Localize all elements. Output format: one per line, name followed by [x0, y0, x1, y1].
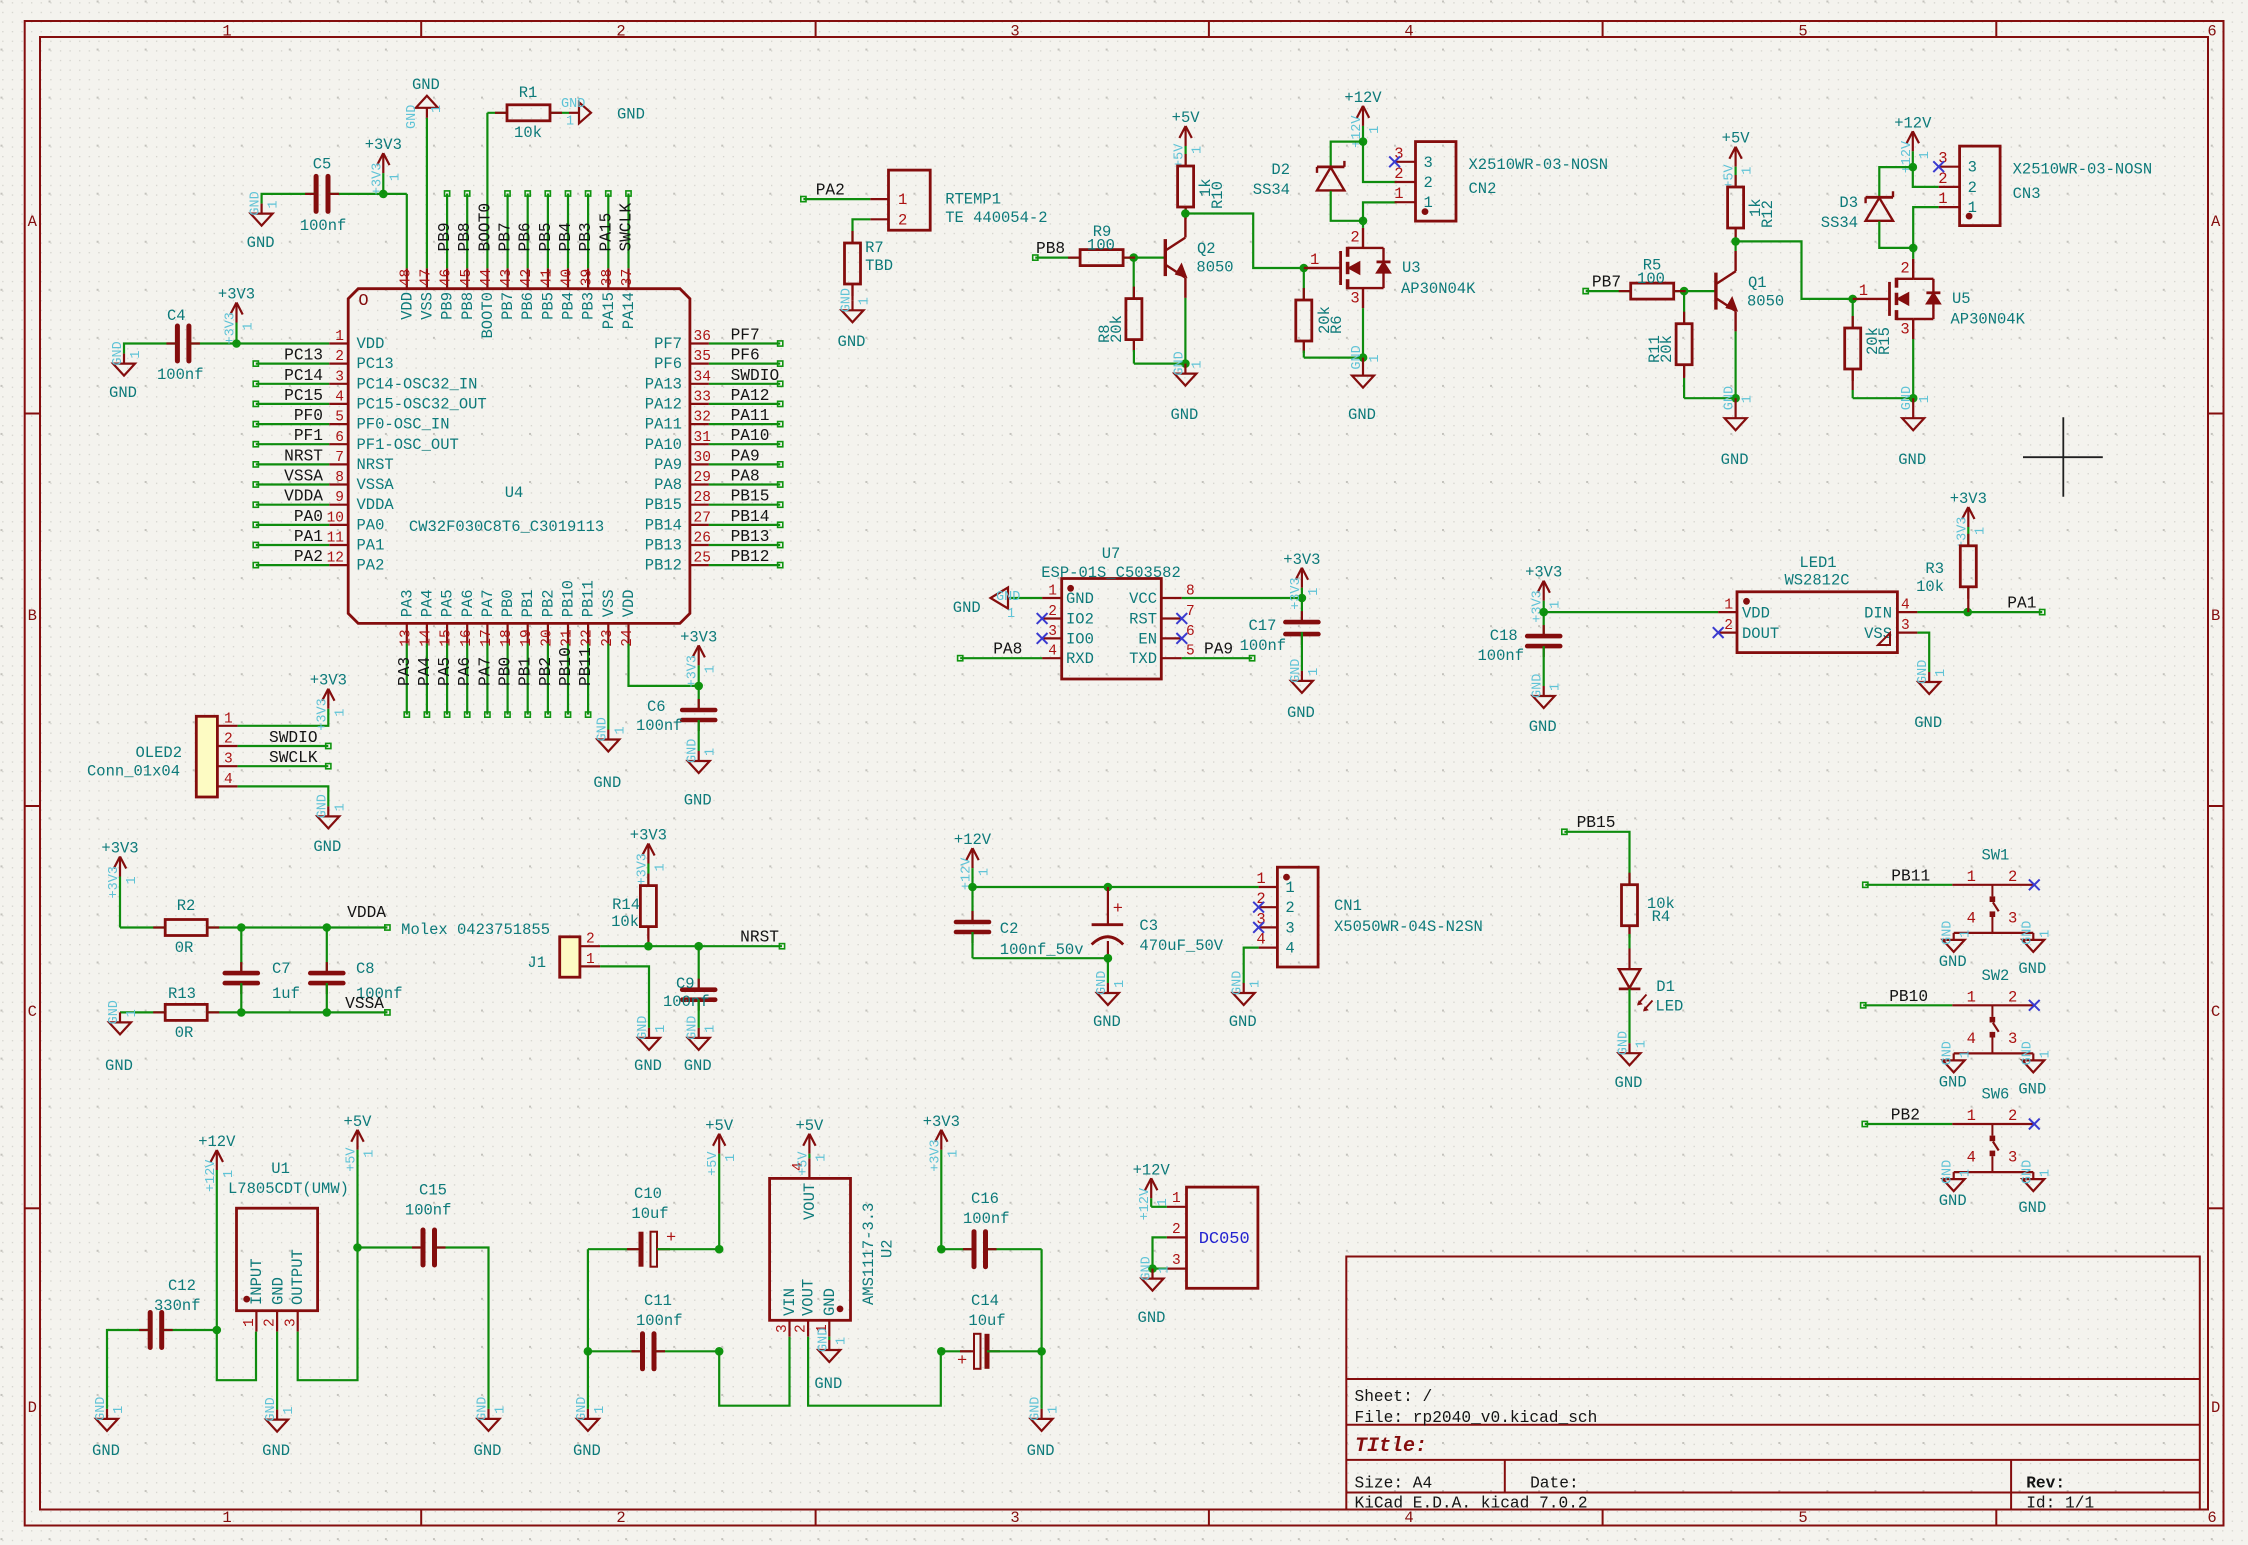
- wire DC050 pin2 down: [1153, 1237, 1167, 1268]
- svg-text:GND: GND: [1229, 1013, 1257, 1031]
- ground at C5: [247, 191, 282, 252]
- wire VSSA to U4 pin 8: [256, 483, 329, 485]
- wire R9 to Q2 base: [1123, 257, 1165, 259]
- wire +3V3 to LED1 VDD: [1544, 611, 1719, 613]
- svg-text:AMS1117-3.3: AMS1117-3.3: [860, 1203, 878, 1305]
- svg-text:C14: C14: [971, 1292, 999, 1310]
- svg-text:A: A: [2211, 213, 2221, 231]
- wire R6 to source ground: [1304, 357, 1363, 359]
- wire PA2 to RTEMP1: [803, 198, 870, 200]
- svg-text:11: 11: [327, 531, 344, 547]
- svg-text:PA7: PA7: [479, 589, 497, 617]
- svg-text:3: 3: [335, 369, 344, 385]
- svg-text:4: 4: [1256, 931, 1265, 949]
- IC U2 AMS1117-3.3: [770, 1158, 897, 1337]
- ground below C6: [684, 739, 719, 810]
- wire U2 VOUT to +3V3 rail: [808, 1337, 941, 1406]
- svg-text:C10: C10: [634, 1185, 662, 1203]
- svg-text:C9: C9: [676, 975, 695, 993]
- no-connect X LED1 DOUT: [1713, 627, 1724, 638]
- svg-text:1: 1: [1368, 126, 1383, 134]
- svg-text:1: 1: [653, 863, 668, 871]
- svg-text:PF6: PF6: [731, 347, 760, 365]
- wire U4 pin 16 label PA6: [466, 644, 468, 715]
- svg-text:Sheet: /: Sheet: /: [1355, 1388, 1433, 1406]
- svg-text:GND: GND: [1941, 1160, 1956, 1184]
- svg-text:GND: GND: [474, 1442, 502, 1460]
- svg-text:1: 1: [129, 350, 144, 358]
- svg-text:PB2: PB2: [537, 657, 555, 686]
- svg-text:3: 3: [224, 752, 233, 768]
- wire OLED2 pin2 SWDIO: [238, 745, 329, 747]
- junction C8/VDDA: [323, 923, 332, 932]
- svg-text:Rev:: Rev:: [2026, 1475, 2065, 1493]
- svg-text:GND: GND: [561, 97, 585, 112]
- junction C10/+5V: [715, 1245, 724, 1254]
- wire U4 pin23 VSS to ground: [607, 644, 609, 730]
- svg-text:3: 3: [1350, 290, 1359, 308]
- connector OLED2 Conn_01x04: [87, 711, 238, 797]
- svg-text:PB10: PB10: [1889, 988, 1928, 1006]
- power +3V3 at OLED2: [310, 672, 349, 731]
- power +3V3 top: [365, 136, 404, 195]
- wire U4 pin 25 to label PB12: [709, 564, 780, 566]
- svg-text:1: 1: [1156, 1198, 1171, 1206]
- svg-text:C4: C4: [167, 307, 186, 325]
- no-connect X CN2 pin3: [1389, 156, 1400, 167]
- svg-text:1: 1: [1959, 1169, 1974, 1177]
- svg-text:1: 1: [333, 803, 348, 811]
- connector RTEMP1 TE 440054-2: [870, 170, 1047, 230]
- junction +12V CN3: [1909, 163, 1918, 172]
- svg-text:1: 1: [222, 1509, 231, 1527]
- svg-text:PA5: PA5: [439, 589, 457, 617]
- power +5V at C10: [705, 1117, 739, 1249]
- ground at C11: [573, 1397, 608, 1460]
- wire OLED2 pin1 to +3V3: [238, 709, 329, 726]
- svg-text:10k: 10k: [611, 913, 639, 931]
- svg-text:1: 1: [282, 1406, 297, 1414]
- svg-text:PA15: PA15: [597, 213, 615, 252]
- svg-text:1: 1: [613, 726, 628, 734]
- no-connect X U7 RST: [1176, 613, 1187, 624]
- svg-text:1: 1: [1048, 584, 1057, 600]
- junction C9/NRST: [694, 942, 703, 951]
- wire U4 pin 27 to label PB14: [709, 524, 780, 526]
- svg-text:GND: GND: [816, 1328, 831, 1352]
- svg-text:2: 2: [1172, 1222, 1181, 1238]
- capacitor C5 100nf: [300, 156, 347, 236]
- ground at C14/C16: [1027, 1397, 1062, 1460]
- svg-text:GND: GND: [1170, 406, 1198, 424]
- svg-text:5: 5: [335, 410, 344, 426]
- wire PA8 to U7 RXD: [960, 657, 1042, 659]
- wire U4 pin 28 to label PB15: [709, 504, 780, 506]
- svg-text:SWCLK: SWCLK: [269, 749, 318, 767]
- resistor R9 100: [1080, 223, 1123, 266]
- wire U4 pin 35 to label PF6: [709, 363, 780, 365]
- svg-text:1: 1: [333, 709, 348, 717]
- svg-text:LED: LED: [1655, 998, 1683, 1016]
- svg-text:1: 1: [1307, 588, 1322, 596]
- svg-text:+5V: +5V: [795, 1117, 824, 1135]
- wire U4 pin 46 label PB9: [446, 194, 448, 269]
- resistor R6 20k: [1296, 268, 1346, 358]
- svg-text:D2: D2: [1271, 161, 1290, 179]
- svg-text:CN2: CN2: [1469, 180, 1497, 198]
- power +12V at CN1: [954, 831, 993, 890]
- svg-text:GND: GND: [105, 1057, 133, 1075]
- svg-text:L7805CDT(UMW): L7805CDT(UMW): [228, 1180, 349, 1198]
- svg-text:GND: GND: [838, 333, 866, 351]
- wire U7 VCC to +3V3: [1182, 597, 1302, 599]
- svg-text:GND: GND: [953, 599, 981, 617]
- resistor R13 0R: [165, 985, 207, 1042]
- wire U4 pin 13 label PA3: [406, 644, 408, 715]
- svg-text:3: 3: [1172, 1253, 1181, 1269]
- wire Q2 emitter down: [1184, 278, 1186, 298]
- wire +12V to CN2 pin2: [1363, 142, 1397, 182]
- junction U5 drain: [1909, 244, 1918, 253]
- svg-text:PA14: PA14: [620, 292, 638, 329]
- svg-text:+3V3: +3V3: [365, 136, 402, 154]
- ground at U3: [1348, 345, 1383, 424]
- svg-text:PA12: PA12: [731, 387, 770, 405]
- svg-text:SWDIO: SWDIO: [731, 367, 780, 385]
- wire LED1 DIN to PA1: [1917, 611, 2042, 613]
- svg-text:GND: GND: [476, 1397, 491, 1421]
- no-connect X U7 EN: [1176, 633, 1187, 644]
- svg-text:3: 3: [1900, 321, 1909, 339]
- wire C12 left to ground: [107, 1330, 150, 1409]
- junction C11 right: [715, 1347, 724, 1356]
- svg-text:Id: 1/1: Id: 1/1: [2026, 1495, 2094, 1513]
- svg-text:GND: GND: [2018, 960, 2046, 978]
- svg-text:PB8: PB8: [459, 292, 477, 320]
- svg-text:PA5: PA5: [436, 657, 454, 686]
- svg-text:PA3: PA3: [396, 657, 414, 686]
- resistor R10 1k: [1178, 154, 1227, 219]
- capacitor C14 10uf polarized: [941, 1292, 1041, 1371]
- wire U2 GND pin to ground: [828, 1337, 830, 1340]
- svg-text:GND: GND: [1939, 1073, 1967, 1091]
- svg-text:2: 2: [1350, 229, 1359, 247]
- junction R2/C7: [237, 923, 246, 932]
- svg-text:3: 3: [1285, 919, 1294, 937]
- svg-text:GND: GND: [313, 838, 341, 856]
- capacitor C6 100nf: [636, 686, 715, 751]
- svg-text:PB9: PB9: [436, 222, 454, 251]
- svg-text:PB13: PB13: [645, 537, 682, 555]
- svg-text:GND: GND: [573, 1442, 601, 1460]
- junction R9/R8: [1129, 253, 1138, 262]
- wire PF1 to U4 pin 6: [256, 443, 329, 445]
- svg-text:40: 40: [560, 269, 576, 286]
- svg-text:GND: GND: [92, 1442, 120, 1460]
- power +3V3 at U7: [1283, 551, 1322, 610]
- wire +5V rail down to U2 VIN: [719, 1337, 789, 1406]
- svg-text:C: C: [2211, 1003, 2220, 1021]
- svg-text:R12: R12: [1759, 200, 1777, 228]
- wire +12V to DC050 pin1: [1151, 1206, 1167, 1208]
- capacitor C8 100nf: [310, 928, 402, 1013]
- capacitor C12 330nf: [150, 1277, 200, 1348]
- svg-text:43: 43: [499, 269, 515, 286]
- svg-text:PF1-OSC_OUT: PF1-OSC_OUT: [357, 436, 459, 454]
- svg-text:C12: C12: [168, 1277, 196, 1295]
- wire OLED2 pin3 SWCLK: [238, 765, 329, 767]
- wire collector to U3 gate: [1185, 214, 1303, 269]
- svg-text:7: 7: [335, 450, 344, 466]
- no-connect X CN1 pin3: [1253, 922, 1264, 933]
- svg-text:3: 3: [1010, 1509, 1019, 1527]
- svg-text:R15: R15: [1876, 327, 1894, 355]
- junction R12/collector: [1731, 237, 1740, 246]
- svg-text:PC14: PC14: [284, 367, 323, 385]
- svg-text:GND: GND: [575, 1397, 590, 1421]
- svg-text:GND: GND: [1140, 1256, 1155, 1280]
- power +5V at R10: [1172, 109, 1206, 168]
- svg-text:2: 2: [586, 932, 595, 948]
- svg-text:U1: U1: [271, 1160, 290, 1178]
- svg-text:GND: GND: [2020, 1160, 2035, 1184]
- svg-text:2: 2: [335, 349, 344, 365]
- junction C8/VSSA: [323, 1008, 332, 1017]
- svg-text:GND: GND: [1617, 1031, 1632, 1055]
- svg-text:1: 1: [898, 191, 907, 209]
- ground at C15: [474, 1397, 509, 1460]
- svg-text:PF7: PF7: [654, 335, 682, 353]
- svg-text:5: 5: [1798, 23, 1807, 41]
- svg-text:2: 2: [2008, 988, 2017, 1006]
- svg-text:C17: C17: [1249, 617, 1277, 635]
- svg-text:2: 2: [616, 1509, 625, 1527]
- svg-text:1: 1: [1967, 988, 1976, 1006]
- svg-text:X2510WR-03-NOSN: X2510WR-03-NOSN: [1469, 156, 1609, 174]
- svg-text:GND: GND: [247, 234, 275, 252]
- svg-text:VIN: VIN: [781, 1288, 799, 1316]
- svg-text:PA2: PA2: [357, 557, 385, 575]
- svg-text:GND: GND: [1615, 1074, 1643, 1092]
- svg-text:46: 46: [439, 269, 455, 286]
- svg-text:GND: GND: [595, 717, 610, 741]
- wire collector to U5 gate: [1736, 241, 1853, 299]
- svg-text:PF0: PF0: [294, 407, 323, 425]
- svg-text:GND: GND: [636, 1016, 651, 1040]
- svg-text:TItle:: TItle:: [1355, 1435, 1427, 1458]
- wire R15 to source ground: [1853, 397, 1914, 399]
- svg-text:1: 1: [335, 329, 344, 345]
- svg-text:28: 28: [694, 490, 711, 506]
- power +12V at CN3: [1894, 114, 1933, 173]
- connector CN2 X2510WR-03-NOSN: [1394, 142, 1608, 222]
- ground at D1: [1615, 1031, 1650, 1092]
- svg-text:A: A: [28, 213, 38, 231]
- resistor R12 1k: [1728, 175, 1777, 241]
- svg-text:GND: GND: [686, 1016, 701, 1040]
- svg-text:+5V: +5V: [344, 1113, 373, 1131]
- svg-text:1: 1: [1368, 354, 1383, 362]
- power +12V at DC050: [1133, 1161, 1172, 1220]
- svg-text:PB15: PB15: [645, 496, 682, 514]
- svg-text:VSS: VSS: [600, 589, 618, 617]
- svg-text:GND: GND: [2018, 1199, 2046, 1217]
- ground at LED1: [1914, 660, 1949, 732]
- svg-text:44: 44: [479, 269, 495, 286]
- svg-text:100nf: 100nf: [663, 993, 710, 1011]
- svg-text:10uf: 10uf: [968, 1312, 1005, 1330]
- svg-text:GND: GND: [249, 191, 264, 215]
- svg-text:4: 4: [1404, 23, 1413, 41]
- svg-text:PB13: PB13: [731, 528, 770, 546]
- svg-text:25: 25: [694, 551, 711, 567]
- svg-text:C6: C6: [647, 698, 666, 716]
- svg-text:1: 1: [978, 868, 993, 876]
- power +3V3 at R14: [630, 827, 669, 886]
- wire U5 drain up: [1912, 259, 1914, 279]
- svg-text:32: 32: [694, 410, 711, 426]
- svg-text:U4: U4: [505, 484, 524, 502]
- svg-text:1: 1: [1934, 669, 1949, 677]
- svg-text:GND: GND: [1529, 718, 1557, 736]
- svg-text:SW1: SW1: [1981, 846, 2009, 864]
- svg-text:ESP-01S_C503582: ESP-01S_C503582: [1041, 564, 1181, 582]
- svg-text:1: 1: [1967, 868, 1976, 886]
- svg-text:100nf: 100nf: [636, 1312, 683, 1330]
- junction U3 gate/R6: [1300, 264, 1309, 273]
- svg-text:2: 2: [1938, 170, 1947, 188]
- svg-text:D: D: [2211, 1399, 2220, 1417]
- wire U1 gnd pin to ground: [276, 1332, 278, 1410]
- ground left SW1: [1939, 921, 1974, 971]
- svg-text:1: 1: [1394, 185, 1403, 203]
- power +3V3 at C4: [218, 286, 257, 345]
- ground at C18: [1529, 674, 1564, 736]
- svg-text:PF0-OSC_IN: PF0-OSC_IN: [357, 416, 450, 434]
- svg-text:3: 3: [2008, 909, 2017, 927]
- power +12V at CN2: [1344, 89, 1383, 148]
- wire U4 pin 43 label PB7: [507, 194, 509, 269]
- svg-text:BOOT0: BOOT0: [479, 292, 497, 339]
- svg-text:GND: GND: [1914, 714, 1942, 732]
- svg-text:C18: C18: [1490, 627, 1518, 645]
- wire PA0 to U4 pin 10: [256, 524, 329, 526]
- IC U7 ESP-01S_C503582: [1041, 545, 1194, 679]
- svg-text:PA11: PA11: [731, 407, 770, 425]
- wire U4 pin 17 label PA7: [486, 644, 488, 715]
- svg-text:1: 1: [1959, 930, 1974, 938]
- wire R13 to VSSA: [207, 1011, 387, 1013]
- wire C15 right to ground: [435, 1248, 489, 1409]
- svg-text:3: 3: [1424, 154, 1433, 172]
- svg-text:PA7: PA7: [476, 657, 494, 686]
- ground at C3: [1093, 958, 1128, 1031]
- junction +12V/C2: [968, 883, 977, 892]
- no-connect X U7 IO0: [1037, 633, 1048, 644]
- svg-text:PA8: PA8: [993, 641, 1022, 659]
- mosfet U5 AP30N04K: [1853, 259, 2026, 338]
- svg-text:WS2812C: WS2812C: [1784, 572, 1849, 590]
- wire U4 pin 42 label PB6: [527, 194, 529, 269]
- svg-text:2: 2: [1424, 174, 1433, 192]
- svg-text:KiCad E.D.A. kicad 7.0.2: KiCad E.D.A. kicad 7.0.2: [1355, 1495, 1588, 1513]
- svg-text:3: 3: [1968, 159, 1977, 177]
- resistor R15 20k: [1845, 299, 1894, 398]
- ground above U4 VSS pin47: [405, 76, 445, 129]
- wire C4 left to ground: [124, 344, 177, 354]
- svg-text:3: 3: [1901, 618, 1910, 634]
- svg-text:VDDA: VDDA: [347, 904, 386, 922]
- svg-text:1: 1: [586, 952, 595, 968]
- resistor R3 10k: [1916, 534, 1976, 612]
- junction +12V CN2: [1359, 137, 1368, 146]
- svg-text:VDD: VDD: [398, 292, 416, 320]
- no-connect X CN3 pin3: [1933, 161, 1944, 172]
- svg-text:1: 1: [1741, 395, 1756, 403]
- svg-text:R2: R2: [177, 897, 196, 915]
- svg-text:GND: GND: [111, 341, 126, 365]
- svg-text:10k: 10k: [514, 124, 542, 142]
- svg-text:330nf: 330nf: [154, 1297, 201, 1315]
- svg-text:GND: GND: [405, 105, 420, 129]
- svg-text:1: 1: [1918, 151, 1933, 159]
- svg-text:PC13: PC13: [357, 355, 394, 373]
- svg-text:2: 2: [224, 732, 233, 748]
- svg-text:3: 3: [1048, 624, 1057, 640]
- svg-text:PA8: PA8: [731, 468, 760, 486]
- svg-text:3: 3: [775, 1324, 791, 1333]
- svg-text:PF6: PF6: [654, 355, 682, 373]
- svg-text:PB10: PB10: [557, 647, 575, 686]
- junction U5 gate/R15: [1848, 295, 1857, 304]
- wire PA2 to U4 pin 12: [256, 564, 329, 566]
- svg-text:2: 2: [898, 212, 907, 230]
- svg-text:2: 2: [1394, 165, 1403, 183]
- connector DC050: [1167, 1187, 1258, 1288]
- no-connect X SW6 pin2: [2029, 1119, 2040, 1130]
- svg-text:INPUT: INPUT: [248, 1258, 266, 1305]
- svg-text:1: 1: [1172, 1191, 1181, 1207]
- svg-text:100nf: 100nf: [1240, 637, 1287, 655]
- svg-text:VSSA: VSSA: [357, 476, 395, 494]
- resistor R1 10k: [507, 84, 550, 142]
- svg-text:R6: R6: [1328, 315, 1346, 334]
- svg-text:2: 2: [1048, 604, 1057, 620]
- svg-text:1: 1: [566, 115, 574, 130]
- wire PB10 to SW2: [1863, 1004, 1952, 1006]
- svg-text:GND: GND: [686, 739, 701, 763]
- svg-text:PA1: PA1: [357, 537, 385, 555]
- svg-text:U3: U3: [1402, 259, 1421, 277]
- no-connect X CN1 pin2: [1253, 902, 1264, 913]
- junction R5/R11: [1680, 287, 1689, 296]
- svg-text:R3: R3: [1925, 560, 1944, 578]
- svg-text:PA1: PA1: [294, 528, 323, 546]
- svg-text:PB1: PB1: [519, 589, 537, 617]
- connector CN1 X5050WR-04S-N2SN: [1256, 867, 1482, 967]
- wire U4 pin 30 to label PA9: [709, 463, 780, 465]
- svg-text:PA9: PA9: [654, 456, 682, 474]
- svg-text:R13: R13: [168, 985, 196, 1003]
- wire U4 pin 15 label PA5: [446, 644, 448, 715]
- svg-text:GND: GND: [1531, 674, 1546, 698]
- wire C5 to +3V3 junction and U4 pin48: [328, 193, 383, 195]
- wire R8 to emitter ground: [1134, 363, 1186, 365]
- svg-text:SW6: SW6: [1981, 1086, 2009, 1104]
- wire U4 pin 18 label PB0: [507, 644, 509, 715]
- junction +3V3/C18: [1539, 608, 1548, 617]
- svg-text:GND: GND: [1723, 386, 1738, 410]
